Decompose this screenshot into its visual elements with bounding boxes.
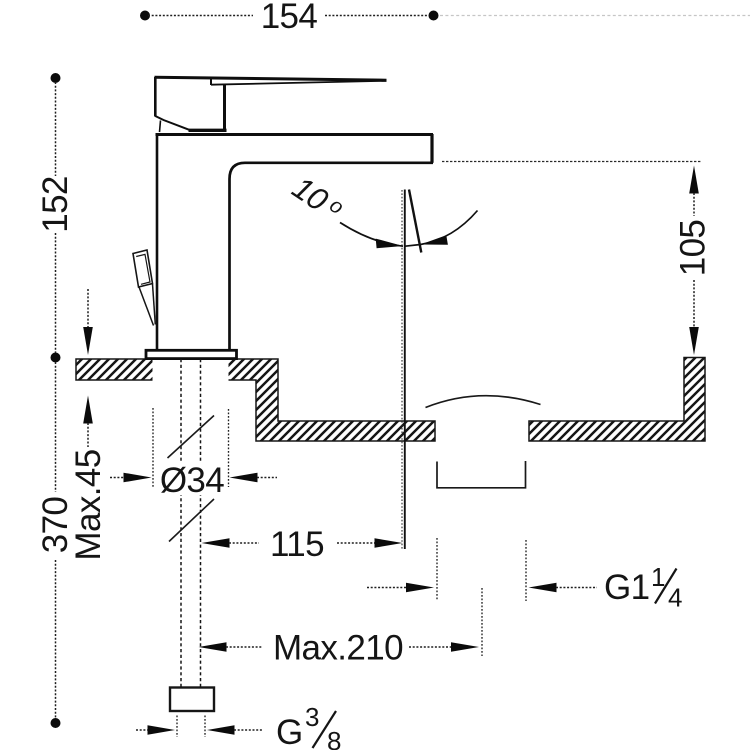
dimension 370 (left lower): [51, 718, 61, 728]
side control rod knob: [133, 250, 153, 287]
svg-text:Max.210: Max.210: [273, 629, 403, 668]
svg-text:G1: G1: [604, 568, 650, 607]
shank break slashes: [168, 416, 215, 459]
svg-text:G: G: [276, 713, 303, 750]
countertop right section with column (hatched): [529, 358, 705, 442]
svg-text:3: 3: [305, 702, 319, 732]
hole in countertop for faucet shank: [153, 358, 229, 383]
hose end connector G3/8: [170, 688, 214, 712]
water stream line: [404, 190, 406, 550]
dimension Max.45 (counter thickness): [87, 289, 89, 328]
dimension 154 (top): [140, 11, 150, 21]
dimension G3/8: [176, 716, 178, 738]
dimension 115: [202, 538, 230, 548]
water stream reference vertical (dotted): [401, 190, 403, 549]
dimension Max.210: [199, 642, 227, 652]
svg-text:115: 115: [270, 525, 324, 564]
svg-text:1: 1: [651, 562, 665, 592]
drain tailpiece U: [437, 461, 526, 488]
dimension 105 (right): [442, 161, 701, 163]
10-degree tilted stream line: [409, 190, 421, 253]
dimension G1 1/4: [436, 538, 438, 601]
svg-text:8: 8: [327, 726, 341, 750]
faucet body fill: [155, 77, 226, 132]
dimension 152 (left upper): [51, 73, 61, 83]
handle block: [154, 77, 157, 117]
dimension D34 extension lines: [152, 408, 154, 487]
base plate: [146, 350, 237, 358]
handle joint triangle detail: [160, 121, 161, 133]
handle lever blade: [155, 77, 387, 80]
svg-text:154: 154: [261, 0, 318, 36]
supply hose dashed lines: [180, 359, 182, 687]
svg-text:105: 105: [674, 220, 713, 277]
svg-text:Ø34: Ø34: [160, 461, 224, 500]
svg-text:152: 152: [36, 176, 75, 233]
svg-text:4: 4: [668, 583, 682, 613]
countertop left section with sink step (hatched): [76, 359, 435, 441]
angle arc left with arrowhead: [340, 223, 403, 247]
drain dome cap arc: [426, 396, 541, 408]
dimension D34 arrows: [110, 477, 124, 479]
spout body outline: [156, 135, 159, 351]
angle arc right with arrowhead: [405, 211, 478, 247]
svg-text:Max.45: Max.45: [69, 449, 108, 560]
